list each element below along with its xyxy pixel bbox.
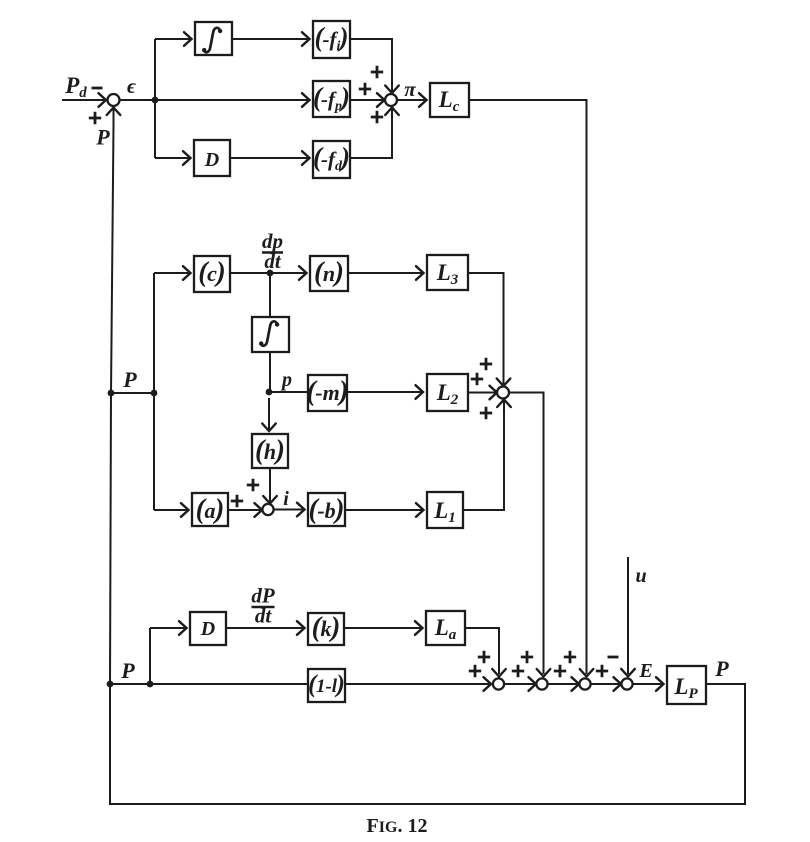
wire (-b) to L1 — [345, 503, 424, 517]
box (-b) — [308, 493, 345, 526]
box LP — [667, 666, 706, 704]
wire S2 to Lc — [397, 93, 427, 107]
svg-text:dt: dt — [264, 249, 282, 273]
svg-text:P: P — [120, 658, 135, 683]
wire Lc to junction j3 — [469, 100, 593, 677]
node p — [266, 389, 273, 396]
label plus left of j3 — [554, 665, 566, 677]
label Pd — [64, 73, 87, 101]
wire (-m) to L2 — [347, 385, 423, 399]
svg-text:(-fi): (-fi) — [315, 22, 349, 54]
svg-text:(1-l): (1-l) — [308, 671, 345, 698]
svg-text:E: E — [638, 660, 652, 682]
box La — [426, 611, 465, 645]
wire to box D top — [155, 151, 191, 165]
wire L1 to S3 — [463, 400, 511, 511]
wire p to (h) — [262, 398, 276, 431]
box (a) — [192, 493, 228, 526]
wire dp/dt node to integrator — [269, 273, 271, 317]
wire (fp) to S2 — [350, 93, 385, 107]
summing junction S4 — [262, 504, 273, 515]
label E — [638, 660, 652, 682]
svg-text:(h): (h) — [255, 435, 285, 466]
wire D to (-fd) — [230, 151, 310, 165]
wire (n) to L3 — [348, 266, 424, 280]
label plus lower of S3 — [480, 407, 492, 419]
label epsilon — [127, 74, 137, 98]
box D top — [194, 140, 230, 176]
svg-text:(a): (a) — [196, 494, 225, 525]
wire D to (k) — [226, 621, 305, 635]
label plus top of j2 — [521, 651, 533, 663]
label p — [280, 369, 292, 391]
node P bottom — [107, 681, 114, 688]
box D bottom — [190, 612, 226, 645]
svg-text:(-fp): (-fp) — [313, 82, 350, 114]
label plus left of j1 — [469, 665, 481, 677]
svg-text:u: u — [635, 565, 646, 587]
label plus at S1 — [89, 112, 101, 124]
wire L3 to S3 — [468, 273, 510, 386]
label plus left of S4 — [231, 495, 243, 507]
box (n) — [310, 256, 348, 291]
wire (a) to S4 — [228, 503, 262, 517]
wire middle branch vertical — [153, 273, 155, 510]
label minus at S1 — [92, 87, 103, 90]
box L3 — [427, 255, 468, 290]
label dp/dt — [262, 229, 283, 273]
svg-text:dt: dt — [255, 604, 273, 628]
summing junction j3 — [579, 678, 590, 689]
node epsilon branch — [152, 97, 159, 104]
box Lc — [430, 83, 469, 117]
label plus left of j4 — [596, 665, 608, 677]
label plus left of S2 — [359, 83, 371, 95]
wire p to (-m) — [269, 391, 308, 393]
node bottom branch — [147, 681, 154, 688]
label plus top of j1 — [478, 651, 490, 663]
label plus left of j2 — [512, 665, 524, 677]
box integrator top — [195, 22, 232, 55]
node dp/dt — [267, 270, 274, 277]
box L2 — [427, 374, 468, 411]
wire j2 to j3 — [548, 677, 579, 691]
label plus top of S2 — [371, 66, 383, 78]
box (fp) — [313, 81, 350, 117]
wire to integrator top — [155, 32, 192, 46]
summing junction S2 — [385, 94, 397, 106]
svg-text:(-fd): (-fd) — [313, 142, 350, 174]
label P middle — [122, 367, 137, 392]
svg-text:P: P — [122, 367, 137, 392]
svg-text:(-m): (-m) — [306, 376, 348, 407]
wire La to j1 — [465, 628, 506, 677]
svg-text:D: D — [204, 149, 219, 171]
label plus left of S3 — [471, 373, 483, 385]
svg-text:D: D — [200, 618, 215, 640]
wire (-fd) to S2 — [350, 108, 399, 159]
svg-text:P: P — [714, 656, 729, 681]
svg-text:(k): (k) — [312, 612, 341, 643]
wire S4 to (-b) — [274, 503, 305, 517]
wire (c) to (n) — [230, 266, 307, 280]
caption FIG. 12 — [367, 815, 428, 837]
wire input Pd — [62, 93, 106, 107]
label plus above S4 — [247, 479, 259, 491]
label plus bottom of S2 — [371, 111, 383, 123]
wire j4 to LP — [633, 677, 664, 691]
node middle branch — [151, 390, 158, 397]
svg-text:(-b): (-b) — [309, 494, 345, 525]
wire j3 to j4 — [591, 677, 621, 691]
label pi — [404, 77, 416, 101]
box (-m) — [306, 375, 348, 411]
svg-text:ϵ: ϵ — [127, 74, 137, 98]
wire to box (c) — [154, 266, 191, 280]
label P bottom — [120, 658, 135, 683]
wire integrator to p node — [269, 352, 271, 392]
svg-text:π: π — [404, 77, 416, 101]
wire integrator to (-fi) — [232, 32, 310, 46]
wire (k) to La — [344, 621, 423, 635]
wire bottom branch vertical — [149, 628, 151, 684]
box integrator middle — [252, 317, 289, 352]
wire to box (a) — [154, 503, 189, 517]
box (h) — [252, 434, 288, 468]
wire epsilon to (fp) — [120, 93, 310, 107]
wire epsilon branch vertical — [154, 39, 156, 158]
svg-text:(n): (n) — [314, 257, 344, 288]
wire to box D bottom — [150, 621, 187, 635]
label minus top of j4 — [608, 656, 619, 659]
label i — [283, 488, 289, 510]
wire (h) to S4 — [263, 468, 277, 504]
wire P to junction j1 — [110, 677, 491, 691]
label plus top of j3 — [564, 651, 576, 663]
wire u input — [621, 557, 635, 676]
label u — [635, 565, 646, 587]
wire feedback loop — [107, 108, 745, 805]
box L1 — [427, 492, 463, 528]
box (-fd) — [313, 141, 350, 178]
wire j1 to j2 — [504, 677, 536, 691]
box (-fi) — [313, 21, 350, 58]
node P middle — [108, 390, 115, 397]
svg-text:P: P — [95, 125, 110, 150]
box (c) — [194, 256, 230, 292]
svg-text:p: p — [280, 369, 292, 391]
summing junction S1 — [108, 94, 120, 106]
label P top feedback — [95, 125, 110, 150]
label dP/dt — [251, 584, 275, 628]
box (k) — [308, 612, 344, 645]
summing junction j2 — [536, 678, 547, 689]
summing junction j1 — [493, 678, 504, 689]
box (1-l) — [308, 669, 345, 702]
wire P to middle branch — [111, 392, 154, 394]
wire L2 to S3 — [468, 386, 497, 400]
wire S3 to junction j2 — [509, 393, 550, 677]
summing junction j4 — [621, 678, 632, 689]
wire (-fi) to S2 — [350, 39, 399, 93]
summing junction S3 — [497, 387, 509, 399]
label P output — [714, 656, 729, 681]
svg-text:FIG. 12: FIG. 12 — [367, 815, 428, 837]
svg-text:(c): (c) — [198, 257, 225, 288]
svg-text:i: i — [283, 488, 289, 510]
label plus upper of S3 — [480, 358, 492, 370]
